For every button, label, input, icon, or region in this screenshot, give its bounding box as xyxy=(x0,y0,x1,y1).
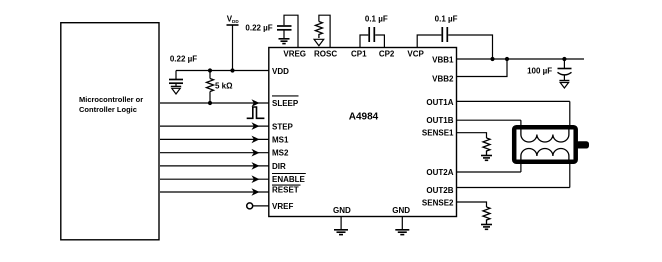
arrowhead ENABLE xyxy=(252,175,260,183)
node VREF input terminal xyxy=(247,203,269,209)
svg-text:A4984: A4984 xyxy=(349,111,379,122)
ground (3-bar) below R3 xyxy=(481,156,492,161)
svg-text:ENABLE: ENABLE xyxy=(272,175,306,184)
svg-text:OUT2A: OUT2A xyxy=(426,168,453,177)
wire SENSE1 xyxy=(457,133,487,138)
inductor winding 2 (bottom coil) xyxy=(521,149,569,160)
svg-text:SENSE2: SENSE2 xyxy=(422,199,454,208)
svg-text:CP2: CP2 xyxy=(379,49,395,58)
ground (3-bar) GND right xyxy=(395,230,409,235)
pin label ENABLE (active low) xyxy=(272,174,306,185)
wire motor right riser (OUT1A to OUT2B behind motor) xyxy=(569,101,571,187)
wire MS1 xyxy=(160,138,269,140)
svg-text:VCP: VCP xyxy=(407,49,424,58)
capacitor C5 100uF (VBB bulk) xyxy=(527,57,571,81)
svg-text:VREF: VREF xyxy=(272,202,293,211)
wire ROSC to top rail xyxy=(319,15,330,47)
ground (open arrow) below R2 xyxy=(314,39,324,45)
capacitor C3 0.1uF (CP1-CP2 pump) xyxy=(360,15,388,48)
ground (chassis style) below C1 xyxy=(171,86,181,94)
supply VDD terminal xyxy=(227,15,240,71)
pin label RESET (active low) xyxy=(272,185,301,194)
node VDD rail junction (supply) xyxy=(230,68,234,72)
wire OUT2A xyxy=(457,171,521,173)
wire SENSE2 xyxy=(457,202,487,207)
svg-text:SLEEP: SLEEP xyxy=(272,99,299,108)
stepper motor M1 body xyxy=(514,127,589,162)
svg-text:0.22 µF: 0.22 µF xyxy=(170,54,197,63)
resistor R4 (SENSE2) xyxy=(483,207,490,225)
ground (3-bar) GND left xyxy=(334,230,348,235)
svg-text:GND: GND xyxy=(392,206,410,215)
wire OUT1A xyxy=(457,100,570,102)
arrowhead MS1 xyxy=(252,136,260,144)
svg-text:OUT1A: OUT1A xyxy=(426,98,453,107)
svg-text:VDD: VDD xyxy=(272,67,289,76)
svg-text:ROSC: ROSC xyxy=(314,49,337,58)
arrowhead DIR xyxy=(252,162,260,170)
svg-text:SENSE1: SENSE1 xyxy=(422,129,454,138)
svg-text:RESET: RESET xyxy=(272,185,299,194)
wire SLEEP xyxy=(160,102,269,104)
wire VBB1 xyxy=(457,58,585,60)
resistor R2 (ROSC) xyxy=(315,22,322,39)
capacitor C2 0.22uF (VREG bypass) xyxy=(245,24,291,39)
wire OUT2B xyxy=(457,187,570,189)
wire VDD rail xyxy=(176,70,269,72)
svg-text:GND: GND xyxy=(333,206,351,215)
wire VBB2 xyxy=(457,59,508,77)
svg-text:100 µF: 100 µF xyxy=(527,67,552,76)
svg-text:DIR: DIR xyxy=(272,162,286,171)
arrowhead SLEEP xyxy=(252,99,260,107)
wire DIR xyxy=(160,165,269,167)
wire GND pin left xyxy=(340,217,342,230)
svg-text:MS2: MS2 xyxy=(272,149,289,158)
inductor winding 1 (top coil) xyxy=(521,130,569,143)
svg-text:VREG: VREG xyxy=(283,49,306,58)
svg-text:Microcontroller or: Microcontroller or xyxy=(79,95,143,104)
IC U1 A4984 box xyxy=(269,48,457,217)
arrowhead RESET xyxy=(252,188,260,196)
wire motor left riser (OUT1B to OUT2A behind motor) xyxy=(520,120,522,172)
svg-text:0.1 µF: 0.1 µF xyxy=(365,15,388,24)
svg-text:DD: DD xyxy=(232,19,239,24)
svg-text:Controller Logic: Controller Logic xyxy=(79,105,137,114)
pulse symbol (STEP input) xyxy=(247,107,265,118)
svg-text:VBB1: VBB1 xyxy=(432,55,454,64)
wire GND pin right xyxy=(401,217,403,230)
node VCP cap to VBB1 xyxy=(490,57,494,61)
svg-text:STEP: STEP xyxy=(272,122,294,131)
wire MS2 xyxy=(160,152,269,154)
capacitor C1 0.22uF (VDD bypass) xyxy=(169,54,197,86)
svg-text:VBB2: VBB2 xyxy=(432,74,454,83)
wire STEP xyxy=(160,125,269,127)
pin label SLEEP (active low) xyxy=(272,96,299,108)
svg-text:5 kΩ: 5 kΩ xyxy=(215,81,233,90)
wire RESET xyxy=(160,191,269,193)
motor shaft xyxy=(576,141,589,148)
ground (3-bar) below R4 xyxy=(481,225,492,230)
capacitor C4 0.1uF (VCP) xyxy=(417,15,492,60)
svg-text:MS1: MS1 xyxy=(272,135,289,144)
microcontroller box xyxy=(61,23,159,240)
svg-text:OUT2B: OUT2B xyxy=(426,186,453,195)
node VBB2 to VBB1 xyxy=(505,57,509,61)
resistor R3 (SENSE1) xyxy=(483,138,490,156)
resistor R1 5k (pull-up/divider) xyxy=(207,68,234,105)
ground (chassis style) below C5 xyxy=(559,81,569,89)
arrowhead MS2 xyxy=(252,149,260,157)
svg-text:OUT1B: OUT1B xyxy=(426,116,453,125)
svg-text:0.22 µF: 0.22 µF xyxy=(245,24,272,33)
wire OUT1B xyxy=(457,119,521,121)
wire ENABLE xyxy=(160,178,269,180)
ground (3-bar) below C2 xyxy=(279,39,290,44)
arrowhead STEP xyxy=(252,122,260,130)
svg-text:CP1: CP1 xyxy=(351,49,367,58)
svg-text:0.1 µF: 0.1 µF xyxy=(435,15,458,24)
wire VREG to top rail xyxy=(284,15,298,47)
